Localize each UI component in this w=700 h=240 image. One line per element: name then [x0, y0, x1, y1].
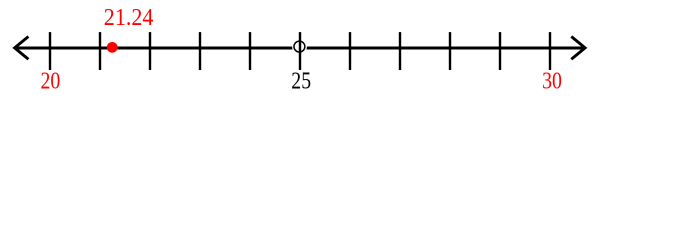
open circle at 25: white halo [292, 40, 307, 55]
number line [15, 46, 586, 49]
tick 25 [299, 32, 301, 70]
svg-text:20: 20 [41, 67, 61, 94]
tick 21 [99, 32, 101, 70]
red point at 21.24 [107, 42, 118, 53]
open circle at 25: ring [294, 41, 305, 52]
svg-text:30: 30 [542, 67, 562, 94]
tick 28 [449, 32, 451, 70]
tick 29 [499, 32, 501, 70]
tick 23 [199, 32, 201, 70]
right arrowhead [571, 37, 585, 60]
svg-text:25: 25 [291, 67, 311, 94]
tick 20 [49, 32, 51, 70]
left arrowhead [15, 37, 29, 60]
tick 24 [249, 32, 251, 70]
tick 30 [549, 32, 551, 70]
tick 26 [349, 32, 351, 70]
svg-text:21.24: 21.24 [104, 3, 154, 30]
tick 27 [399, 32, 401, 70]
tick 22 [149, 32, 151, 70]
